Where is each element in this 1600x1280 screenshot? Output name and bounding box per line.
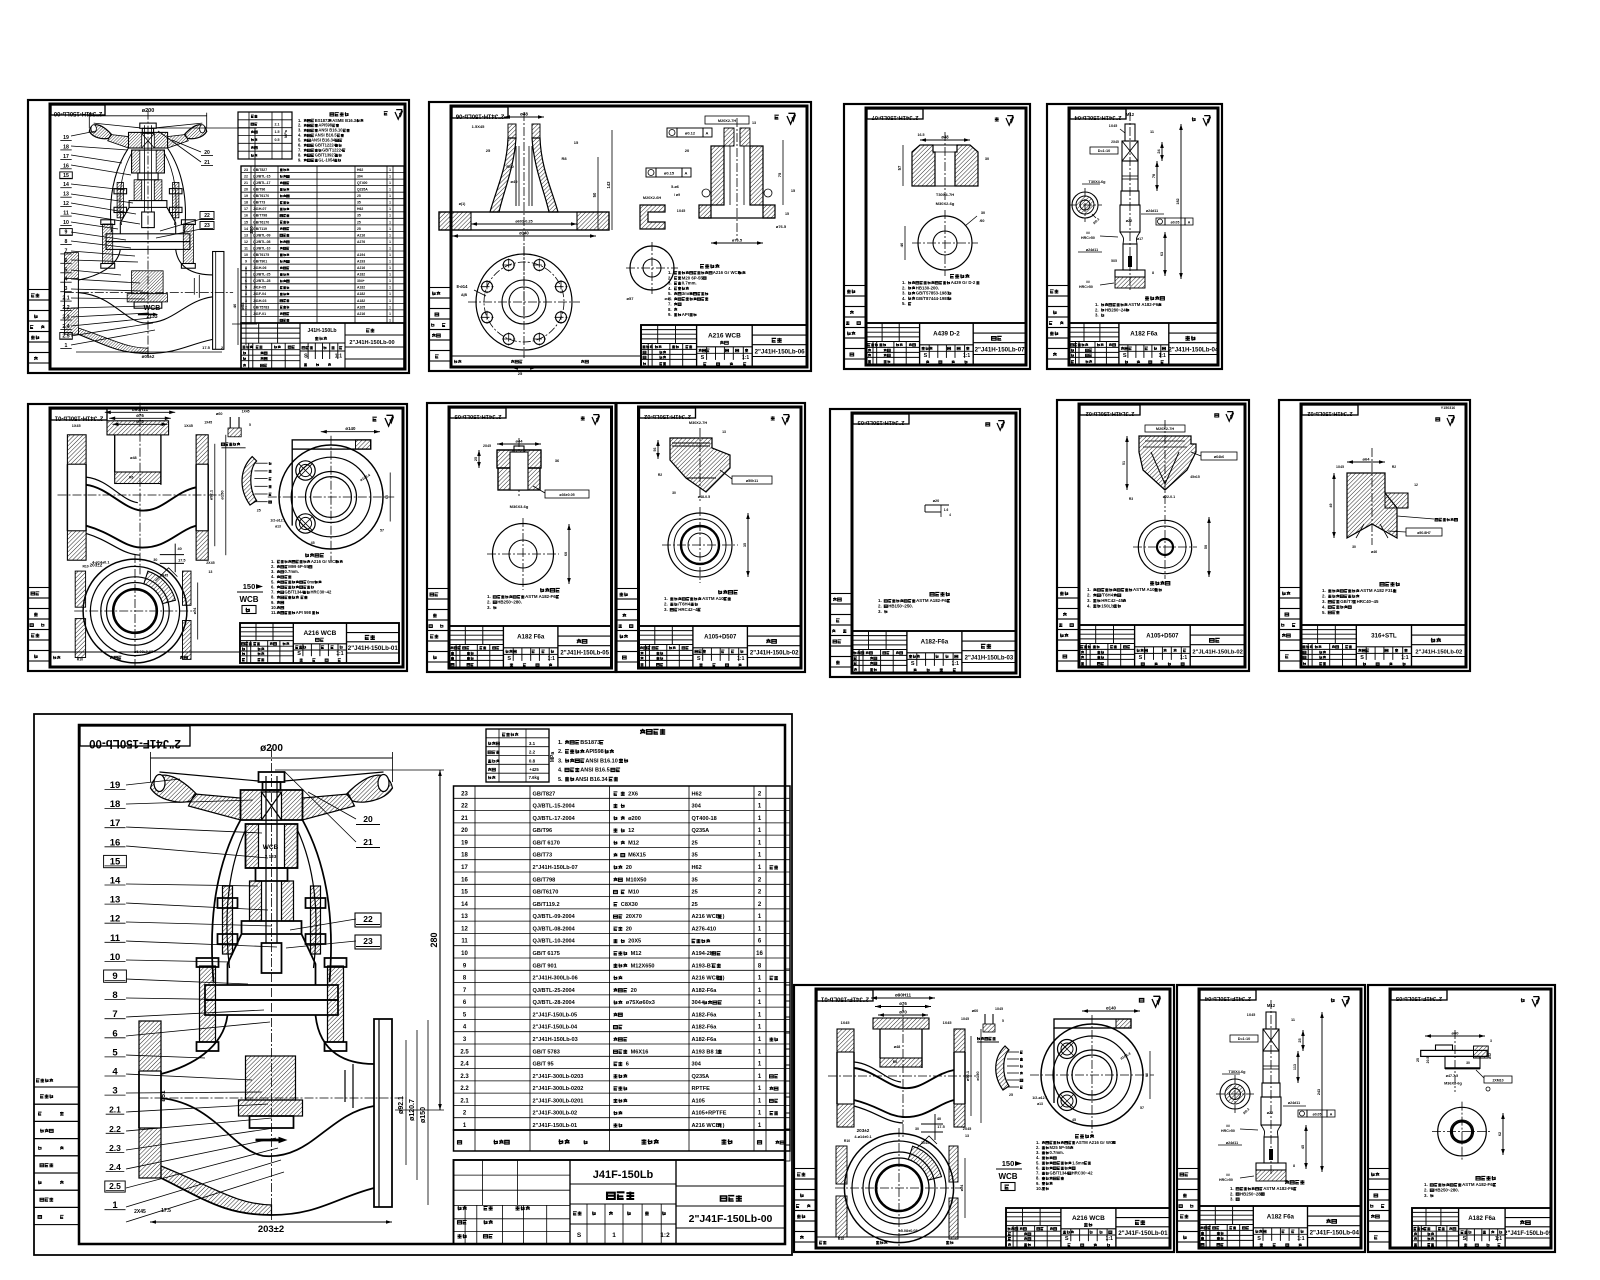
- sheet11 valve gland eye bolts: [223, 886, 233, 954]
- svg-text:ø0.15: ø0.15: [664, 171, 675, 176]
- svg-text:C8X30: C8X30: [621, 902, 638, 908]
- svg-text:ø90H11: ø90H11: [132, 407, 149, 412]
- svg-text:2"JL41H-150Lb-02: 2"JL41H-150Lb-02: [1086, 410, 1135, 416]
- svg-text:S: S: [924, 353, 928, 359]
- sheet8 inner frame: [852, 413, 1016, 673]
- svg-text:QJ/BTL-25-2004: QJ/BTL-25-2004: [533, 988, 576, 994]
- sheet1 valve body section: [65, 292, 233, 294]
- sheet6 dims: [497, 443, 541, 445]
- sheet8 outer border: [830, 409, 1020, 677]
- sheet12 inner frame: [816, 989, 1170, 1248]
- svg-text:2.1: 2.1: [275, 122, 280, 126]
- svg-text:4-ø14±0.1: 4-ø14±0.1: [92, 561, 109, 565]
- svg-text:20: 20: [244, 188, 248, 192]
- sheet13 bottom flange: [1256, 1163, 1286, 1170]
- svg-text:4: 4: [949, 513, 951, 517]
- svg-text:ø92.1: ø92.1: [965, 1070, 970, 1081]
- svg-text:30: 30: [1352, 545, 1356, 549]
- svg-text:S: S: [1463, 1236, 1467, 1242]
- svg-text:API: API: [682, 312, 689, 317]
- svg-text:2"J41H-150Lb-00: 2"J41H-150Lb-00: [349, 340, 394, 346]
- svg-text:4.: 4.: [902, 296, 906, 301]
- svg-text:API598: API598: [585, 749, 603, 755]
- svg-text:23: 23: [244, 168, 248, 172]
- svg-text:18: 18: [244, 201, 248, 205]
- sheet5 surface roughness symbol: [372, 417, 376, 421]
- sheet5 revision stack: [28, 588, 50, 599]
- svg-text:2.4: 2.4: [109, 1162, 121, 1172]
- svg-text:S: S: [1065, 1236, 1069, 1242]
- svg-text:2"J41F-300Lb-02: 2"J41F-300Lb-02: [533, 1111, 578, 1117]
- svg-text:HRC42~45: HRC42~45: [678, 607, 700, 612]
- svg-text:R2: R2: [1392, 465, 1396, 469]
- svg-text:20: 20: [631, 988, 637, 994]
- svg-text:8-ø14: 8-ø14: [457, 284, 469, 289]
- sheet5 drain boss detail: [160, 554, 184, 556]
- svg-text:Q235A: Q235A: [357, 188, 368, 192]
- svg-text:0.7mm.: 0.7mm.: [1050, 1150, 1064, 1155]
- svg-text:J41F-05: J41F-05: [253, 286, 266, 290]
- svg-text:A105: A105: [692, 1098, 705, 1104]
- svg-text:11.: 11.: [271, 610, 277, 615]
- svg-text:GB/T901: GB/T901: [253, 260, 267, 264]
- svg-text:17: 17: [244, 207, 248, 211]
- sheet11 valve seat and disc: [246, 1056, 296, 1100]
- svg-text:QJ/BTL-15-2004: QJ/BTL-15-2004: [533, 804, 576, 810]
- svg-text:22: 22: [244, 175, 248, 179]
- svg-text:2.1: 2.1: [460, 1098, 469, 1104]
- sheet7 surface roughness symbol: [771, 416, 775, 420]
- svg-text:M6X15: M6X15: [628, 853, 646, 859]
- svg-text:2"J41H-150Lb-07: 2"J41H-150Lb-07: [872, 114, 919, 120]
- svg-text:25: 25: [357, 220, 361, 224]
- svg-text:ø48: ø48: [520, 112, 528, 117]
- sheet4 stem view: [1129, 112, 1131, 292]
- svg-text:150: 150: [1002, 1159, 1015, 1168]
- svg-text:1: 1: [389, 318, 391, 322]
- sheet4 bottom flange: [1115, 270, 1145, 277]
- svg-text:GB/T 6170: GB/T 6170: [533, 840, 560, 846]
- svg-text:S: S: [1123, 353, 1127, 359]
- svg-text:A182: A182: [357, 286, 365, 290]
- svg-text:ø20: ø20: [933, 499, 940, 503]
- sheet1 valve stuffing box: [134, 180, 142, 201]
- svg-text:ASME B16.34: ASME B16.34: [332, 118, 359, 123]
- svg-text:2.: 2.: [558, 749, 563, 755]
- svg-text:GB/T96: GB/T96: [533, 828, 553, 834]
- svg-text:16: 16: [756, 951, 763, 957]
- sheet8 title block: [852, 631, 1016, 673]
- svg-text:20: 20: [461, 828, 468, 834]
- svg-text:QJ/BTL-10-2004: QJ/BTL-10-2004: [533, 939, 576, 945]
- svg-text:M12: M12: [628, 840, 639, 846]
- svg-text:GB/T119.2: GB/T119.2: [533, 902, 560, 908]
- svg-text:57: 57: [897, 165, 902, 170]
- sheet10 drawing-number box (rotated): [1302, 405, 1358, 415]
- svg-text:ø74: ø74: [960, 1184, 964, 1191]
- sheet11 valve handwheel nut: [259, 772, 285, 782]
- sheet11 right margin blocks: [785, 969, 790, 985]
- svg-text:M30X2-6g: M30X2-6g: [936, 201, 955, 206]
- svg-text:0.7mm.: 0.7mm.: [682, 281, 697, 286]
- svg-text:ø52: ø52: [1488, 1053, 1492, 1059]
- svg-text:1/2-ø12.1: 1/2-ø12.1: [1032, 1096, 1047, 1100]
- svg-text:A105+D507: A105+D507: [1146, 634, 1179, 640]
- sheet10 inner frame: [1301, 404, 1466, 667]
- svg-text:ø92.1: ø92.1: [209, 489, 214, 500]
- svg-text:2.1: 2.1: [109, 1105, 121, 1115]
- sheet13 notes: [1285, 1180, 1304, 1184]
- svg-text:1: 1: [389, 266, 391, 270]
- sheet6 inner frame: [449, 407, 612, 668]
- sheet5 notes: [305, 553, 324, 557]
- sheet11 title block: [454, 1160, 786, 1244]
- svg-text:QT400-18: QT400-18: [692, 816, 717, 822]
- svg-text:ø48-0.5: ø48-0.5: [698, 495, 710, 499]
- svg-text:2"J41F-150Lb-00: 2"J41F-150Lb-00: [89, 737, 181, 749]
- svg-text:ø47.7-5: ø47.7-5: [1446, 1074, 1458, 1078]
- svg-text:5.: 5.: [902, 301, 906, 306]
- sheet11 flange dims: [405, 1040, 407, 1165]
- svg-text:113: 113: [1293, 1064, 1297, 1070]
- svg-text:3.: 3.: [878, 609, 882, 614]
- svg-text:A|B: A|B: [461, 293, 468, 297]
- svg-text:S: S: [1139, 655, 1143, 661]
- svg-text:20.5: 20.5: [1426, 1057, 1430, 1064]
- svg-text:1:1: 1:1: [1159, 353, 1166, 359]
- sheet1 valve handwheel diameter dim: [89, 115, 206, 117]
- sheet3 inner frame: [866, 108, 1026, 365]
- svg-text:4: 4: [245, 292, 247, 296]
- svg-text:35: 35: [692, 877, 698, 883]
- svg-text:1.5mm: 1.5mm: [1072, 1160, 1086, 1165]
- svg-text:5: 5: [1002, 1019, 1004, 1023]
- sheet7 circle view: [662, 544, 738, 546]
- sheet7 revision stack: [617, 589, 639, 600]
- svg-text:1: 1: [389, 292, 391, 296]
- svg-text:20: 20: [626, 865, 632, 871]
- sheet1 valve seat and disc: [132, 271, 164, 294]
- svg-text:ø48: ø48: [894, 1045, 901, 1049]
- svg-text:A105: A105: [357, 305, 365, 309]
- svg-text:5X5: 5X5: [1111, 259, 1117, 263]
- svg-text:6: 6: [626, 1062, 629, 1068]
- svg-text:2.: 2.: [878, 604, 882, 609]
- svg-text:A105+D507: A105+D507: [704, 635, 737, 641]
- svg-text:1: 1: [389, 227, 391, 231]
- svg-text:H62: H62: [692, 865, 702, 871]
- svg-text:2"J41F-300Lb-0201: 2"J41F-300Lb-0201: [533, 1098, 584, 1104]
- sheet5 section dims: [105, 411, 175, 413]
- sheet1 dim 280: [254, 128, 256, 324]
- svg-text:30: 30: [981, 211, 985, 215]
- svg-text:1:1: 1:1: [1297, 1236, 1304, 1242]
- svg-text:57: 57: [1140, 1106, 1144, 1110]
- sheet12 bolt flange side view: [1030, 1074, 1154, 1076]
- svg-text:1:1: 1:1: [1495, 1236, 1502, 1242]
- svg-text:3.: 3.: [487, 605, 491, 610]
- svg-text:ANSI B16.10: ANSI B16.10: [585, 758, 617, 764]
- sheet1 valve yoke arms: [110, 148, 128, 232]
- svg-text:): ): [723, 1123, 725, 1129]
- svg-text:316+STL: 316+STL: [1371, 633, 1397, 640]
- svg-text:ASTM A105: ASTM A105: [1133, 587, 1158, 592]
- svg-text:1: 1: [389, 286, 391, 290]
- sheet4 notes: [1145, 296, 1164, 300]
- svg-text:2"J41H-150Lb-02: 2"J41H-150Lb-02: [644, 413, 691, 419]
- svg-text:ø0.12: ø0.12: [685, 131, 696, 136]
- svg-text:75: 75: [777, 172, 782, 177]
- svg-text:M6X16: M6X16: [631, 1049, 649, 1055]
- svg-text:1.: 1.: [1322, 588, 1326, 593]
- sheet6 revision stack: [427, 589, 449, 600]
- sheet1 inner frame: [50, 104, 405, 369]
- svg-text:J41F-01: J41F-01: [253, 312, 266, 316]
- svg-text:2"J41H-150Lb-03: 2"J41H-150Lb-03: [857, 419, 905, 425]
- svg-text:35: 35: [357, 201, 361, 205]
- sheet11 valve flow arrow: [256, 1139, 280, 1142]
- sheet12 body front view: [835, 1187, 963, 1189]
- svg-text:2"J41F-150Lb-01: 2"J41F-150Lb-01: [533, 1123, 578, 1129]
- svg-text:2.: 2.: [664, 602, 668, 607]
- svg-text:BS1873: BS1873: [580, 740, 600, 746]
- svg-text:A182-F6a: A182-F6a: [692, 1037, 718, 1043]
- svg-text:A216 Gr WCB: A216 Gr WCB: [311, 559, 338, 564]
- svg-text:3.: 3.: [1424, 1193, 1428, 1198]
- svg-text:QJ/BTL-28: QJ/BTL-28: [253, 279, 271, 283]
- sheet2 bolt circle view: [468, 301, 580, 303]
- svg-text:ø140: ø140: [519, 231, 529, 236]
- sheet2 gasket detail: [640, 205, 665, 229]
- svg-text:2.: 2.: [1230, 1191, 1234, 1196]
- svg-text:40: 40: [177, 547, 181, 551]
- svg-text:2"J41F-300Lb-0202: 2"J41F-300Lb-0202: [533, 1086, 584, 1092]
- svg-text:11: 11: [461, 939, 468, 945]
- sheet9 circle view: [1133, 546, 1197, 548]
- svg-text:1: 1: [389, 175, 391, 179]
- sheet2 notes: [700, 264, 719, 268]
- svg-text:ø150: ø150: [220, 490, 225, 500]
- svg-text:A194-2H: A194-2H: [692, 951, 714, 957]
- svg-text:ø140: ø140: [345, 426, 356, 431]
- svg-text:##: ##: [1226, 1124, 1230, 1128]
- svg-text:2"J41H-150Lb-00: 2"J41H-150Lb-00: [53, 110, 102, 116]
- svg-text:17.5: 17.5: [161, 1208, 171, 1214]
- sheet11 valve stem: [265, 776, 267, 943]
- svg-text:ø140: ø140: [1106, 1006, 1117, 1011]
- svg-text:ø92.1: ø92.1: [398, 1096, 405, 1114]
- svg-text:16.5: 16.5: [918, 133, 925, 137]
- sheet1 parts table: [241, 166, 404, 323]
- svg-text:S: S: [507, 656, 511, 662]
- svg-text:1.: 1.: [487, 594, 491, 599]
- svg-text:ø13: ø13: [1037, 1102, 1043, 1106]
- svg-text:2X45: 2X45: [483, 444, 491, 448]
- svg-text:2X45: 2X45: [134, 1209, 146, 1215]
- svg-text:ASTM A182-F6a: ASTM A182-F6a: [1462, 1182, 1496, 1187]
- sheet1 valve flow arrow: [138, 313, 153, 315]
- sheet5 bolt flange side view: [268, 496, 394, 498]
- sheet1 valve yoke bushing: [132, 150, 140, 173]
- svg-text:GB/T96: GB/T96: [253, 188, 265, 192]
- sheet1 spec table: [238, 112, 292, 159]
- svg-text:GB/T798: GB/T798: [253, 214, 267, 218]
- svg-text:2"J41F-150Lb-00: 2"J41F-150Lb-00: [689, 1213, 773, 1225]
- svg-text:A216 WCB: A216 WCB: [708, 333, 741, 340]
- svg-text:H62: H62: [357, 207, 363, 211]
- svg-text:6: 6: [245, 279, 247, 283]
- svg-text:3.: 3.: [1322, 599, 1326, 604]
- svg-text:R10: R10: [844, 1139, 850, 1143]
- svg-text:40: 40: [899, 242, 904, 247]
- sheet9 outer border: [1057, 400, 1249, 671]
- sheet13 surface roughness symbol: [1331, 998, 1335, 1002]
- sheet7 notes: [718, 590, 738, 594]
- sheet2 surface roughness symbol: [774, 115, 778, 119]
- sheet7 inner frame: [639, 407, 802, 668]
- svg-text:2"J41F-150Lb-01: 2"J41F-150Lb-01: [1118, 1230, 1168, 1237]
- svg-text:): ): [723, 976, 725, 982]
- sheet2 bonnet section view: [523, 112, 525, 318]
- sheet5 gasket crescent detail: [242, 457, 257, 505]
- svg-text:2: 2: [245, 305, 247, 309]
- svg-text:1: 1: [389, 246, 391, 250]
- sheet4 mid section: [1120, 205, 1140, 232]
- svg-text:45: 45: [1072, 1118, 1076, 1122]
- svg-text:25: 25: [1298, 1038, 1302, 1042]
- svg-text:2"J41H-150Lb-04: 2"J41H-150Lb-04: [1168, 347, 1219, 354]
- svg-text:1: 1: [245, 312, 247, 316]
- sheet14 title block: [1412, 1208, 1551, 1248]
- sheet14 section view: [1454, 1030, 1456, 1092]
- svg-text:1X45: 1X45: [677, 209, 685, 213]
- svg-text:1:1: 1:1: [336, 651, 343, 657]
- svg-text:S: S: [1257, 1236, 1261, 1242]
- svg-text:/T6H4: /T6H4: [1101, 593, 1114, 598]
- sheet13 title block: [1199, 1206, 1361, 1248]
- svg-text:2X45: 2X45: [963, 1127, 971, 1131]
- sheet5 outer border: [28, 404, 407, 671]
- svg-text:30: 30: [153, 558, 157, 562]
- sheet6 outer border: [427, 403, 616, 672]
- svg-text:M20 6P-55: M20 6P-55: [682, 275, 704, 280]
- svg-text:Y150316: Y150316: [1441, 406, 1455, 410]
- svg-text:1:1: 1:1: [548, 656, 555, 662]
- svg-text:ø36±0.05: ø36±0.05: [559, 493, 574, 497]
- svg-text:1: 1: [612, 1232, 616, 1239]
- svg-text:1:1: 1:1: [737, 656, 744, 662]
- svg-text:ASTM A182-F6a: ASTM A182-F6a: [1128, 302, 1161, 307]
- svg-text:ø24d11: ø24d11: [1086, 248, 1098, 252]
- svg-text:HB250~280: HB250~280: [1240, 1191, 1264, 1196]
- sheet6 title block: [449, 626, 612, 668]
- sheet4 outer border: [1047, 104, 1222, 369]
- sheet3 surface roughness symbol: [995, 117, 999, 121]
- svg-text:5: 5: [249, 423, 251, 427]
- sheet11 valve handwheel: [151, 775, 197, 802]
- sheet1 valve stem: [144, 125, 146, 212]
- svg-text:H62: H62: [357, 168, 363, 172]
- sheet7 title block: [639, 626, 802, 668]
- sheet11 valve yoke arms: [212, 820, 241, 982]
- sheet2 revision stack: [429, 288, 451, 299]
- sheet1 leader lines: [71, 131, 201, 345]
- svg-text:ø24d11: ø24d11: [1146, 209, 1158, 213]
- svg-text:5.: 5.: [1322, 610, 1326, 615]
- svg-text:30: 30: [915, 1127, 919, 1131]
- svg-text:11: 11: [1291, 1018, 1295, 1022]
- sheet9 drawing-number box (rotated): [1080, 405, 1140, 415]
- svg-text:ø60: ø60: [216, 412, 223, 416]
- sheet1 valve gland eye bolts: [117, 182, 123, 217]
- svg-text:ø64k6: ø64k6: [1214, 455, 1224, 459]
- sheet10 outer border: [1279, 400, 1470, 671]
- svg-text:ø22-0.1: ø22-0.1: [1163, 495, 1175, 499]
- sheet11 bottom dim: [150, 1221, 392, 1223]
- sheet3 outer border: [844, 104, 1030, 369]
- svg-text:4.: 4.: [1087, 603, 1091, 608]
- svg-text:A: A: [706, 131, 709, 136]
- svg-text:+425: +425: [529, 767, 539, 772]
- svg-text:GB/T87444-1988: GB/T87444-1988: [916, 296, 950, 301]
- svg-text:1: 1: [389, 233, 391, 237]
- sheet12 body section view: [828, 1075, 978, 1077]
- svg-text:A182 F6a: A182 F6a: [1130, 331, 1158, 338]
- svg-text:2.2: 2.2: [109, 1124, 121, 1134]
- svg-text:HB150~250.: HB150~250.: [888, 604, 913, 609]
- svg-text:A: A: [685, 171, 688, 176]
- sheet12 section dims: [871, 997, 935, 999]
- svg-text:1.5: 1.5: [275, 130, 280, 134]
- svg-text:A182: A182: [357, 292, 365, 296]
- svg-text:15: 15: [791, 189, 795, 193]
- svg-text:D=1:10: D=1:10: [1238, 1037, 1251, 1041]
- sheet6 drawing-number box (rotated): [450, 408, 506, 418]
- svg-text:2"J41H-150Lb-07: 2"J41H-150Lb-07: [533, 865, 578, 871]
- sheet13 outer border: [1177, 985, 1365, 1252]
- svg-text:1: 1: [389, 312, 391, 316]
- svg-text:2X45: 2X45: [1111, 140, 1119, 144]
- sheet1 title block: [241, 323, 404, 369]
- svg-text:2.3: 2.3: [109, 1143, 121, 1153]
- sheet4 drawing-number box (rotated): [1070, 109, 1126, 119]
- svg-text:T30X4-7H: T30X4-7H: [936, 192, 954, 197]
- sheet8 notes: [930, 592, 950, 596]
- svg-text:WCB: WCB: [263, 844, 279, 851]
- svg-text:13: 13: [244, 233, 248, 237]
- sheet7 outer border: [617, 403, 806, 672]
- sheet11 valve stuffing box: [250, 881, 262, 921]
- svg-text:A276-410: A276-410: [692, 926, 717, 932]
- svg-text:ø74: ø74: [193, 607, 197, 614]
- svg-text:1: 1: [389, 273, 391, 277]
- svg-text:3.: 3.: [1230, 1197, 1234, 1202]
- svg-text:2.5: 2.5: [109, 1181, 121, 1191]
- svg-text:A182-F6a: A182-F6a: [692, 988, 718, 994]
- svg-text:M10: M10: [628, 890, 639, 896]
- svg-text:25: 25: [486, 148, 491, 153]
- svg-text:2"J41H-150Lb-01: 2"J41H-150Lb-01: [348, 645, 399, 652]
- svg-text:2"J41H-150Lb-02: 2"J41H-150Lb-02: [750, 651, 799, 657]
- svg-text:15: 15: [461, 890, 468, 896]
- sheet3 drawing-number box (rotated): [867, 109, 923, 119]
- svg-text:4.: 4.: [668, 286, 672, 291]
- sheet2 outer border: [429, 102, 811, 371]
- svg-text:10.: 10.: [1036, 1186, 1042, 1191]
- svg-text:J41F-150Lb: J41F-150Lb: [593, 1169, 654, 1181]
- svg-text:2133: 2133: [146, 314, 157, 320]
- sheet11 spec table: [486, 729, 549, 782]
